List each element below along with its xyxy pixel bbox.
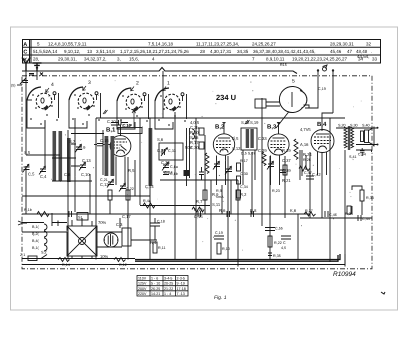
trimmer C4 [39, 166, 46, 174]
svg-text:R,24: R,24 [303, 152, 312, 157]
resistor R1b on AVC bus [37, 212, 49, 217]
resistor R27 [304, 212, 316, 216]
wire verticals mid additions [90, 160, 231, 214]
ground [33, 63, 42, 71]
svg-text:15,6,: 15,6, [129, 57, 139, 62]
coil S7 bar [67, 138, 71, 182]
wire osc to left [262, 98, 280, 118]
long vertical wires [25, 100, 27, 214]
resistor zigzag x264 [262, 152, 266, 166]
coil S5 bar [53, 131, 57, 181]
resistor R11 [153, 242, 157, 253]
svg-text:R,8: R,8 [250, 208, 257, 213]
stray mark bottom right [381, 292, 385, 294]
top bus wire [22, 68, 297, 74]
wire osc right [304, 105, 310, 108]
trimmer C9 [75, 144, 82, 152]
svg-text:C,16: C,16 [122, 123, 131, 128]
antenna [22, 58, 30, 72]
small component labels B4 area [300, 127, 321, 177]
gang 1 can box [155, 94, 187, 129]
resistor blob [184, 170, 190, 176]
svg-text:21-22: 21-22 [164, 287, 173, 291]
svg-text:B,1(: B,1( [32, 246, 40, 250]
svg-text:9,10,12,: 9,10,12, [64, 49, 80, 54]
svg-text:R,7: R,7 [196, 199, 203, 204]
resistor R34 [347, 206, 351, 214]
title 234 U [216, 93, 236, 102]
wire jack leads [305, 71, 333, 113]
wire y133 [71, 133, 104, 135]
capacitor C16 glyph [111, 120, 128, 125]
svg-text:R,4: R,4 [150, 240, 157, 245]
tuning gang 1 [155, 81, 184, 110]
antenna lead wire [25, 71, 27, 100]
svg-text:13: 13 [87, 49, 93, 54]
svg-text:28,29,30,31: 28,29,30,31 [330, 41, 354, 46]
trimmers under B3 [267, 161, 274, 169]
labels C21 C22 [100, 178, 134, 191]
svg-text:7: 7 [252, 57, 255, 62]
svg-text:110V: 110V [138, 277, 147, 281]
svg-text:C,33: C,33 [258, 136, 267, 141]
svg-text:K,6: K,6 [290, 208, 297, 213]
antenna coupling parts [29, 73, 43, 76]
svg-text:C,37: C,37 [282, 158, 291, 163]
gang 3 can box [69, 93, 101, 128]
svg-text:C,46: C,46 [329, 213, 337, 217]
svg-text:R10994: R10994 [333, 271, 356, 278]
wire speaker bottom [356, 145, 378, 153]
svg-text:C,10: C,10 [107, 119, 116, 124]
resistor rect mid3 [283, 165, 287, 175]
svg-text:R,10: R,10 [222, 247, 230, 251]
svg-text:C,17: C,17 [122, 214, 131, 219]
svg-text:C,18: C,18 [157, 220, 165, 224]
svg-text:R,21: R,21 [282, 178, 291, 183]
trimmer C8a [162, 162, 169, 170]
svg-text:R,2: R,2 [240, 192, 247, 197]
svg-text:12,4,8,10,55,7,9,11: 12,4,8,10,55,7,9,11 [48, 41, 87, 46]
AVC bus [22, 213, 310, 215]
tube B1 [106, 110, 142, 156]
resistor R4a [143, 203, 155, 208]
capacitor C47 [306, 176, 314, 179]
svg-text:R,6: R,6 [219, 208, 226, 213]
svg-text:4,30,17,31: 4,30,17,31 [210, 49, 232, 54]
svg-text:C,19: C,19 [215, 231, 223, 235]
oscillator section 5 [279, 79, 306, 113]
svg-text:3,51,14,8: 3,51,14,8 [96, 49, 115, 54]
svg-text:4: 4 [152, 57, 155, 62]
svg-text:Fig. 1: Fig. 1 [214, 295, 227, 301]
svg-text:125V: 125V [138, 282, 147, 286]
svg-text:1 - 6: 1 - 6 [151, 277, 158, 281]
svg-text:10%: 10% [100, 254, 109, 259]
small component labels upper left [24, 119, 193, 189]
svg-text:C,24: C,24 [164, 170, 173, 175]
svg-text:R,9: R,9 [216, 189, 222, 193]
output transformer S20 S30 [338, 124, 358, 151]
svg-text:8,9,10,11: 8,9,10,11 [266, 57, 285, 62]
svg-text:R15: R15 [280, 63, 287, 67]
table row 3 numbers [33, 57, 378, 62]
svg-text:(5): (5) [11, 84, 16, 88]
tuning gang 3 [69, 80, 98, 109]
svg-text:C,8a: C,8a [170, 165, 179, 169]
svg-text:R,22: R,22 [274, 241, 282, 245]
capacitor C55 [265, 228, 275, 231]
wire pair right of box [187, 128, 190, 186]
resistor rect mid1 [203, 190, 207, 200]
svg-text:234 U: 234 U [216, 93, 236, 102]
capacitor C94 [360, 148, 365, 156]
svg-text:17-18: 17-18 [177, 287, 186, 291]
svg-text:2-3-5: 2-3-5 [177, 277, 185, 281]
wire speaker top [336, 127, 378, 129]
svg-text:B,3: B,3 [267, 124, 277, 131]
svg-text:R,26: R,26 [303, 158, 311, 162]
main HT bus [96, 117, 345, 119]
wire coil interconnect [52, 144, 92, 181]
component stack x200 [199, 128, 204, 135]
svg-text:7,5,14,16,18: 7,5,14,16,18 [148, 41, 174, 46]
power transformer [67, 218, 97, 259]
wire R33 branch [352, 186, 362, 215]
tube B4 [311, 121, 334, 153]
svg-text:32: 32 [366, 41, 372, 46]
resistor R10 [217, 243, 221, 254]
small coil arcs S15 [192, 129, 195, 139]
svg-text:4,5: 4,5 [281, 246, 286, 250]
svg-text:28: 28 [200, 49, 206, 54]
svg-text:C,23: C,23 [161, 160, 170, 165]
switch S2 [41, 255, 47, 259]
svg-text:26-25: 26-25 [151, 287, 160, 291]
svg-text:C,15: C,15 [100, 138, 109, 143]
svg-text:C,42: C,42 [312, 172, 321, 177]
grid cap wires to tubes [111, 125, 121, 136]
component stack x238 [237, 163, 241, 171]
svg-text:C,19: C,19 [318, 87, 326, 91]
svg-text:36,37,38,40,38,41,42,41,43,45,: 36,37,38,40,38,41,42,41,43,45, [253, 49, 316, 54]
svg-text:C,30: C,30 [190, 145, 199, 150]
svg-text:B,2(: B,2( [32, 232, 40, 236]
capacitor C15 glyph [94, 144, 110, 146]
tube B3 [267, 124, 289, 156]
svg-text:220V: 220V [138, 292, 147, 296]
box with trimmer C33 [159, 143, 183, 160]
svg-text:47: 47 [347, 49, 353, 54]
svg-text:9 -19: 9 -19 [177, 282, 185, 286]
svg-text:28,: 28, [33, 57, 39, 62]
svg-text:4: 4 [51, 82, 54, 88]
resistor zigzag x296 [294, 139, 298, 160]
svg-text:R,19: R,19 [282, 148, 291, 153]
svg-text:C,5: C,5 [28, 172, 35, 177]
tuning arrows [103, 110, 250, 124]
svg-text:R,17: R,17 [240, 159, 248, 163]
electrolytic block [122, 228, 131, 246]
trimmer cluster below B1 [107, 179, 114, 187]
svg-text:D,5 S,07: D,5 S,07 [241, 152, 255, 156]
svg-text:B,1(: B,1( [32, 225, 40, 229]
wire transformer secondary [22, 213, 122, 247]
svg-text:5: 5 [37, 41, 40, 46]
coil bar at 150 [149, 128, 153, 186]
IF can legs [243, 150, 255, 185]
small component labels mid [190, 120, 297, 219]
svg-text:5 - 10: 5 - 10 [151, 282, 160, 286]
connection table frame [23, 40, 381, 64]
svg-text:R,5: R,5 [128, 168, 135, 173]
svg-text:51,5,52A,14: 51,5,52A,14 [33, 49, 58, 54]
tube legs [116, 157, 125, 186]
svg-text:45,46: 45,46 [330, 49, 342, 54]
IF coil bars S18 S19 [246, 129, 254, 148]
svg-text:R,4a: R,4a [143, 199, 152, 203]
svg-text:34: 34 [358, 57, 364, 62]
svg-text:4,7V5: 4,7V5 [300, 127, 311, 132]
svg-text:34,35: 34,35 [237, 49, 249, 54]
trimmer C8b [163, 172, 169, 175]
small labels power area [98, 214, 157, 259]
svg-text:C,39: C,39 [282, 168, 291, 173]
resistor R26 [299, 166, 310, 171]
svg-text:34,32,37,2,: 34,32,37,2, [84, 57, 107, 62]
svg-text:1 - 4: 1 - 4 [164, 292, 171, 296]
svg-text:1: 1 [167, 81, 170, 87]
svg-text:3,: 3, [117, 57, 121, 62]
resistor R33 [360, 190, 364, 201]
svg-text:R,11: R,11 [158, 246, 166, 250]
small resistors under B1 [108, 190, 112, 200]
resistor R15 block [255, 99, 266, 108]
capacitor C46 [325, 211, 328, 217]
left bottom wire [22, 258, 135, 260]
voltage table bottom left [137, 276, 188, 297]
bottom bus dark pair [135, 254, 340, 260]
fuse Z1 [28, 256, 37, 261]
svg-text:70%: 70% [98, 220, 107, 225]
capacitor C44 [358, 215, 361, 221]
svg-text:B,1: B,1 [106, 127, 116, 134]
svg-text:C,6: C,6 [64, 172, 71, 177]
svg-text:C: C [283, 241, 286, 245]
speaker [349, 124, 379, 160]
gang 2 can box [117, 94, 149, 129]
capacitor C45 [281, 236, 291, 239]
trimmer C10 [79, 162, 86, 170]
capacitor C19b [214, 236, 224, 239]
svg-text:200V: 200V [138, 287, 147, 291]
gang 4 can box [27, 93, 59, 128]
horizontal connecting wires [22, 195, 150, 197]
svg-text:C,4: C,4 [40, 174, 47, 179]
resistor R7 zigzag [192, 207, 204, 212]
svg-text:S,41: S,41 [349, 155, 357, 159]
svg-text:C,15: C,15 [194, 214, 203, 219]
svg-text:C,13: C,13 [82, 158, 91, 163]
svg-text:C,9: C,9 [79, 145, 86, 150]
svg-text:S,6: S,6 [157, 137, 164, 142]
resistor R22 [268, 236, 272, 247]
trimmer C5 [23, 164, 30, 172]
svg-text:.: . [371, 49, 372, 54]
capacitor on AVC bus [69, 211, 72, 217]
svg-text:3-4-5: 3-4-5 [164, 277, 172, 281]
rectifier tube [104, 233, 118, 247]
transformer winding taps [32, 224, 47, 251]
svg-text:7 -13: 7 -13 [177, 292, 185, 296]
svg-text:29,30,31,: 29,30,31, [58, 57, 77, 62]
svg-text:R,35: R,35 [273, 254, 281, 258]
ground lead wire [36, 71, 38, 80]
caps on AVC bus [198, 211, 254, 217]
svg-text:A: A [23, 42, 27, 48]
svg-text:A,16: A,16 [300, 142, 309, 147]
svg-text:S,20: S,20 [338, 124, 346, 128]
svg-text:C: C [23, 50, 27, 56]
svg-text:S,19: S,19 [250, 120, 259, 125]
svg-text:R,12: R,12 [119, 263, 127, 267]
svg-text:C,30: C,30 [240, 172, 248, 176]
capacitor C18 [150, 218, 160, 240]
tuning gang 2 [117, 81, 146, 110]
svg-text:C,3: C,3 [116, 222, 123, 227]
table row letters [23, 42, 27, 63]
dash-dot shield border [22, 76, 372, 269]
svg-text:S,40: S,40 [362, 124, 370, 128]
svg-text:2: 2 [136, 81, 139, 87]
svg-text:S,5: S,5 [24, 150, 31, 155]
labels near B2 B3 legs [216, 159, 280, 199]
table row 1 numbers [37, 41, 372, 46]
bottom chassis line [22, 254, 345, 265]
coil S6 bar [59, 131, 63, 181]
svg-text:C,10: C,10 [81, 172, 90, 177]
svg-text:S,12: S,12 [232, 146, 241, 151]
svg-text:R,14: R,14 [62, 263, 70, 267]
svg-text:C,14: C,14 [145, 184, 154, 189]
svg-text:5: 5 [292, 79, 295, 85]
svg-text:C,34: C,34 [240, 185, 248, 189]
resistor R12 [114, 258, 126, 262]
svg-text:S,2: S,2 [41, 251, 47, 255]
svg-text:20-25: 20-25 [164, 282, 173, 286]
table row 2 numbers [33, 49, 372, 59]
svg-text:R,27: R,27 [305, 209, 313, 213]
mains plug arrows [18, 221, 27, 225]
switch S1 [77, 213, 88, 221]
svg-text:C,29: C,29 [258, 148, 267, 153]
capacitor C1 antenna [20, 78, 28, 84]
svg-text:Z,1: Z,1 [20, 253, 25, 257]
svg-text:19,20,21,22,23,24,25,26,27: 19,20,21,22,23,24,25,26,27 [292, 57, 348, 62]
tuning gang 4 [27, 82, 56, 109]
svg-text:R,33: R,33 [366, 196, 374, 200]
scan speckle [33, 80, 361, 250]
svg-text:5mA: 5mA [216, 195, 224, 199]
svg-text:D,5: D,5 [232, 136, 239, 141]
svg-text:S,30: S,30 [350, 124, 358, 128]
svg-text:R,23: R,23 [272, 189, 280, 193]
svg-text:S,7: S,7 [69, 139, 76, 144]
resistor rect mid2 [236, 190, 240, 200]
resistor R14 [58, 258, 70, 262]
svg-text:24,25,26,27: 24,25,26,27 [252, 41, 276, 46]
trimmers under B2 [213, 161, 220, 169]
svg-text:C,20: C,20 [157, 148, 166, 153]
wire osc down diagonal [276, 112, 289, 129]
svg-text:S,11: S,11 [212, 202, 221, 207]
gram jack terminals [317, 65, 334, 72]
svg-text:C,44: C,44 [362, 217, 370, 221]
svg-text:3: 3 [88, 80, 91, 86]
svg-text:C,12: C,12 [100, 182, 109, 187]
IF can box between B2 B3 [241, 128, 257, 150]
gang rotor blobs [44, 105, 178, 112]
coil bar pair before B1 [105, 136, 115, 176]
svg-text:11,17,11,23,27,25,34,: 11,17,11,23,27,25,34, [196, 41, 239, 46]
svg-text:B,2: B,2 [215, 124, 225, 131]
resistor zigzag x207 [205, 153, 209, 174]
wire B4 bias [302, 150, 306, 176]
svg-text:33: 33 [372, 57, 378, 62]
resistor R35 [268, 253, 272, 256]
svg-text:C,55: C,55 [275, 227, 283, 231]
svg-text:1,17,2,15,26,18,21,27,21,24,75: 1,17,2,15,26,18,21,27,21,24,75,26 [120, 49, 189, 54]
wire left stub [17, 84, 22, 86]
svg-text:S1: S1 [78, 216, 83, 220]
gang shield dots [30, 94, 186, 126]
svg-text:B,4(: B,4( [32, 239, 40, 243]
tube B2 [213, 124, 234, 156]
svg-text:14-21: 14-21 [151, 292, 160, 296]
svg-text:R,1b: R,1b [24, 208, 32, 212]
